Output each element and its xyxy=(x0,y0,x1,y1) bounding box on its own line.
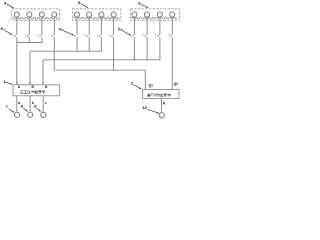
pin A entry arrowhead xyxy=(16,83,18,85)
wire pin K down to lamp 10 xyxy=(161,99,163,113)
svg-text:K: K xyxy=(163,101,166,105)
callout 9 arrow xyxy=(37,108,40,110)
wire lamp7 down to switch xyxy=(100,17,102,34)
wire lamp6 down to switch xyxy=(88,17,90,34)
lamp group enclosure 4 (dashed box) xyxy=(12,9,60,20)
lamp L7 in group 5 xyxy=(99,12,104,17)
lamp L11 in group 6 xyxy=(157,12,162,17)
switch contact under lamp4 xyxy=(51,34,54,36)
wire switch6 down xyxy=(88,37,90,51)
switch contact under lamp2 xyxy=(26,34,29,36)
svg-text:6: 6 xyxy=(138,1,141,6)
callout K2 arrow xyxy=(64,31,72,34)
series scallop wire in group 5 xyxy=(73,17,119,19)
wire pin c down to indicator lamp xyxy=(42,96,44,112)
lamp-4 common line (net Q1) xyxy=(54,69,145,71)
lamp L6 in group 5 xyxy=(87,12,92,17)
lamp group enclosure 6 (dashed box) xyxy=(131,9,180,20)
lamp L2 in group 4 xyxy=(27,12,32,17)
svg-text:1: 1 xyxy=(3,27,5,31)
lamp L3 in group 4 xyxy=(39,12,44,17)
wire switch5 down xyxy=(76,37,78,51)
group-1 bus (net A) xyxy=(17,42,43,44)
switch contact under lamp1 xyxy=(14,34,17,36)
junction net N / wire10 xyxy=(147,59,148,60)
svg-text:3: 3 xyxy=(121,28,123,32)
callout K1 arrow xyxy=(5,31,10,34)
switch contact under lamp6 xyxy=(86,34,89,36)
switch contact under lamp7 xyxy=(99,34,102,36)
wire lamp2 down to switch xyxy=(28,17,30,34)
indicator lamp 8 xyxy=(28,112,33,117)
wire lamp12 down to switch xyxy=(171,17,173,34)
SPDT switch box U2 xyxy=(143,89,180,98)
lamp L10 in group 6 xyxy=(145,12,150,17)
junction net N / wire9 xyxy=(134,59,135,60)
switch contact under lamp5 xyxy=(74,34,77,36)
three-position six-pin switch box U1 xyxy=(13,85,60,96)
lamp L1 in group 4 xyxy=(14,12,19,17)
lamp group enclosure 5 (dashed box) xyxy=(73,9,121,20)
lamp L8 in group 5 xyxy=(111,12,116,17)
wire pin a down to indicator lamp xyxy=(16,96,18,112)
lamp L9 in group 6 xyxy=(132,12,137,17)
switch contact under lamp10 xyxy=(144,34,147,36)
wire lamp11 down to switch xyxy=(159,17,161,34)
callout 1 arrow xyxy=(5,82,10,84)
wire lamp4 down to switch xyxy=(53,17,55,34)
indicator lamp 7 xyxy=(14,112,19,117)
svg-text:c: c xyxy=(45,101,47,105)
svg-text:Q1: Q1 xyxy=(149,84,153,88)
wire switch11 down xyxy=(159,37,161,60)
junction net B / wire5 xyxy=(76,51,77,52)
svg-text:5: 5 xyxy=(78,0,81,5)
series scallop wire in group 4 xyxy=(12,17,58,19)
wire switch4 down xyxy=(53,37,55,70)
svg-text:A: A xyxy=(18,85,21,89)
svg-text:7: 7 xyxy=(6,104,9,109)
wire lamp5 down to switch xyxy=(76,17,78,34)
U1 label text 三工位六脚开关 xyxy=(20,90,22,92)
wire net Q1 down to pin Q1 xyxy=(144,70,146,89)
svg-text:2: 2 xyxy=(62,28,64,32)
wire switch12 down xyxy=(171,37,173,90)
svg-text:4: 4 xyxy=(4,0,7,5)
wire lamp1 down to switch xyxy=(16,17,18,34)
wire lamp8 down to switch xyxy=(113,17,115,34)
wire switch9 down xyxy=(133,37,135,60)
wire switch8 down xyxy=(113,37,115,70)
svg-text:9: 9 xyxy=(34,104,37,109)
wire switch2 down xyxy=(28,37,30,43)
wire switch10 down xyxy=(146,37,148,60)
wire switch7 down xyxy=(100,37,102,51)
indicator lamp 10 xyxy=(159,113,164,118)
lamp L12 in group 6 xyxy=(170,12,175,17)
switch contact under lamp3 xyxy=(39,34,42,36)
series scallop wire in group 6 xyxy=(131,17,177,19)
tap wire net A down to pin A xyxy=(16,43,18,84)
callout K3 arrow xyxy=(123,31,129,34)
svg-text:N: N xyxy=(45,85,48,89)
callout 4 arrow xyxy=(7,4,12,7)
lamp L5 in group 5 xyxy=(74,12,79,17)
wire lamp10 down to switch xyxy=(146,17,148,34)
wire switch1 down xyxy=(16,37,18,43)
callout 8 arrow xyxy=(23,108,26,110)
svg-text:B: B xyxy=(32,85,35,89)
svg-text:Q2: Q2 xyxy=(174,82,178,86)
wire lamp9 down to switch xyxy=(133,17,135,34)
group-3 bus (net N) xyxy=(43,59,161,61)
wire pin b down to indicator lamp xyxy=(29,96,31,112)
wire lamp3 down to switch xyxy=(41,17,43,34)
junction net Q1 / wire8 xyxy=(113,70,114,71)
wire switch3 down xyxy=(41,37,43,43)
switch contact under lamp12 xyxy=(169,34,172,36)
callout 10 arrow xyxy=(147,109,157,112)
switch contact under lamp11 xyxy=(157,34,160,36)
callout 2 arrow xyxy=(133,85,139,88)
svg-text:1: 1 xyxy=(3,79,6,84)
callout 6 arrow xyxy=(141,4,146,7)
junction net B / wire6 xyxy=(89,51,90,52)
callout 5 arrow xyxy=(81,3,87,6)
indicator lamp 9 xyxy=(41,112,46,117)
tap wire net B down to pin B xyxy=(29,51,31,83)
svg-text:8: 8 xyxy=(21,104,24,109)
pin B entry arrowhead xyxy=(29,83,31,85)
callout 7 arrow xyxy=(9,109,13,112)
switch contact under lamp8 xyxy=(111,34,114,36)
pin N entry arrowhead xyxy=(42,83,44,85)
switch contact under lamp9 xyxy=(132,34,135,36)
svg-text:10: 10 xyxy=(142,105,147,110)
lamp L4 in group 4 xyxy=(52,12,57,17)
group-2 bus (net B) xyxy=(30,50,102,52)
tap wire net N down to pin N xyxy=(42,60,44,84)
U2 label text 单刀双掷开关 xyxy=(147,93,149,96)
